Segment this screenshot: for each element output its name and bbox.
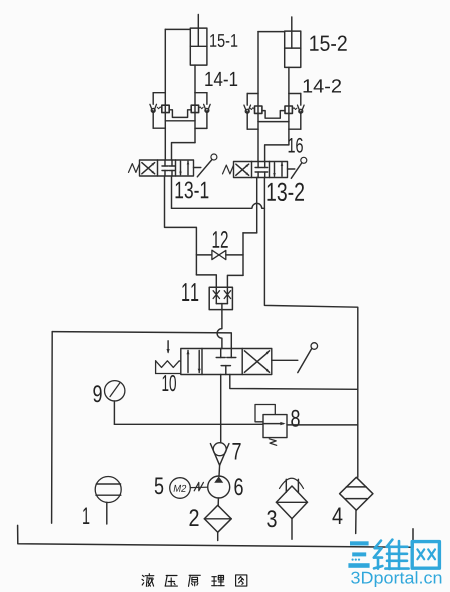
pressure gauge 9 bbox=[105, 381, 125, 401]
label 11 bbox=[182, 283, 198, 301]
wire breather stem bbox=[291, 519, 293, 540]
wire gauge line to relief valve bbox=[114, 423, 263, 425]
label 6 bbox=[234, 478, 242, 495]
wire 15-2 bottom port bbox=[288, 67, 290, 93]
check valve 7 bbox=[210, 443, 229, 466]
wire 14-2 right jog to 13-2 bbox=[265, 145, 289, 162]
wire 14-2 right check line bbox=[300, 94, 302, 106]
wire 14-1 right check bottom bbox=[206, 112, 208, 128]
label 12 bbox=[213, 231, 228, 248]
manual lever of valve 10 bbox=[272, 359, 298, 361]
oil tank bbox=[18, 525, 413, 547]
wire 14-1 right top branch bbox=[195, 92, 207, 94]
directional valve 13-2 bbox=[223, 157, 307, 178]
wire right branch vertical bbox=[242, 233, 244, 276]
wire right branch to 13-2 port1 bbox=[243, 232, 257, 234]
wire 15-1 bottom port bbox=[194, 65, 196, 93]
wire relief valve outlet bbox=[287, 424, 358, 426]
watermark character 维 bbox=[374, 540, 409, 569]
label 15-1 bbox=[210, 34, 237, 47]
wire 14-2 right main line bbox=[288, 94, 290, 145]
wire gauge stem bbox=[113, 401, 115, 424]
wire 14-1 pilot cross upper bbox=[169, 110, 191, 118]
shutoff valve 12 bowtie bbox=[212, 250, 219, 259]
wire 15-2 rod-side port bbox=[258, 31, 285, 33]
label 5 bbox=[155, 477, 164, 494]
title 原 bbox=[189, 575, 201, 586]
label 1 bbox=[83, 507, 89, 524]
check valve 14-1 right bbox=[204, 104, 211, 112]
wire 13-1 port2 down to tank line bbox=[171, 176, 173, 208]
wire 13-2 port1 down bbox=[256, 178, 258, 233]
spring of 13-2 bbox=[223, 165, 234, 174]
wire T port to return bbox=[230, 375, 358, 390]
wire 14-1 left check line bbox=[152, 93, 154, 105]
watermark 3Dportal.cn bbox=[351, 571, 441, 587]
wire 15-1 rod-side port bbox=[165, 28, 190, 30]
label 2 bbox=[189, 509, 198, 526]
throttle box 14-1 left bbox=[162, 105, 169, 112]
hydraulic pump 6 bbox=[208, 476, 230, 498]
return filter 4 bbox=[340, 477, 373, 510]
valve mark left bbox=[213, 291, 219, 299]
title 压 bbox=[165, 576, 177, 587]
label 14-2 bbox=[304, 79, 341, 92]
pilot check valve assembly 14-1 bbox=[150, 93, 210, 129]
manual lever of 13-1 bbox=[194, 167, 201, 169]
label 3 bbox=[267, 510, 276, 527]
wire 13-1 port1 down bbox=[165, 176, 197, 275]
fluid level gauge 1 bbox=[95, 477, 121, 503]
wire 15-1 left main line bbox=[164, 29, 166, 160]
check valve 14-2 left bbox=[244, 105, 251, 113]
wire filter 2 tail bbox=[217, 532, 219, 540]
title 液 bbox=[142, 574, 154, 587]
pilot check valve assembly 14-2 bbox=[244, 94, 304, 130]
wire pressure line P bbox=[220, 375, 222, 443]
watermark character 三 bbox=[348, 541, 369, 568]
label 14-1 bbox=[205, 72, 237, 86]
wire filter 4 tail bbox=[355, 510, 357, 533]
wire level gauge stem bbox=[106, 502, 108, 524]
manual lever of 13-2 bbox=[288, 168, 295, 170]
check valve 14-1 left bbox=[150, 104, 157, 112]
relief valve 8 bbox=[255, 405, 287, 446]
valve mark right bbox=[224, 291, 230, 299]
wire right branch down to shuttle valve bbox=[227, 275, 243, 287]
wire shuttle output with hop bbox=[217, 310, 222, 349]
spring of valve 10 bbox=[155, 361, 157, 374]
cylinder 15-1 bbox=[190, 15, 207, 66]
wire 14-1 left top branch bbox=[153, 92, 165, 94]
wire 14-2 pilot cross lower bbox=[258, 121, 289, 123]
wire 14-1 right main line bbox=[194, 93, 196, 143]
wire 14-2 right check bottom bbox=[300, 113, 302, 129]
wire 15-2 left main line bbox=[257, 32, 259, 162]
wire shutoff valve right branch bbox=[226, 254, 243, 256]
shuttle valve block 11 bbox=[209, 287, 232, 309]
label 13-2 bbox=[267, 183, 304, 201]
title 理 bbox=[212, 576, 224, 586]
label 10 bbox=[163, 375, 176, 391]
wire 14-1 right check line bbox=[206, 93, 208, 105]
label 16 bbox=[289, 138, 303, 153]
suction filter 2 bbox=[204, 505, 231, 532]
wire 14-1 right jog to 13-1 bbox=[172, 143, 196, 160]
wire 14-2 left check bottom bbox=[246, 113, 248, 129]
wire left branch down to shuttle valve bbox=[196, 275, 216, 287]
spring of relief valve 8 bbox=[269, 439, 276, 446]
wire 14-1 left check bottom bbox=[152, 112, 154, 128]
label 7 bbox=[232, 443, 240, 460]
title 图 bbox=[236, 575, 247, 586]
label 8 bbox=[291, 410, 299, 427]
spring of 13-1 bbox=[129, 164, 140, 173]
directional valve 13-1 bbox=[129, 154, 217, 177]
directional valve 10 bbox=[156, 341, 318, 375]
wire 13-2 port2 long return line bbox=[264, 178, 357, 478]
throttle box 14-2 left bbox=[255, 106, 262, 113]
label 4 bbox=[332, 507, 342, 524]
label 13-1 bbox=[176, 181, 209, 198]
wire 14-2 left check line bbox=[246, 94, 248, 106]
wire long line to valve 10 port B bbox=[52, 332, 231, 349]
wire 14-1 pilot cross lower bbox=[165, 120, 195, 122]
throttle box 14-2 right bbox=[285, 106, 292, 113]
electric motor 5 bbox=[170, 478, 191, 499]
wire 14-2 pilot cross upper bbox=[262, 111, 285, 119]
label 9 bbox=[93, 385, 101, 402]
shaft coupling bbox=[190, 482, 207, 490]
label 15-2 bbox=[310, 35, 347, 51]
control arrow of valve 10 bbox=[167, 341, 169, 352]
wire left boundary pipe into tank bbox=[51, 332, 54, 524]
wire pump inlet bbox=[217, 498, 219, 505]
air breather filter 3 bbox=[276, 478, 307, 518]
wire tank line 13-1 to 13-2 with hop bbox=[172, 203, 265, 208]
throttle box 14-1 right bbox=[191, 105, 198, 112]
cylinder 15-2 bbox=[285, 17, 301, 67]
wire check valve to pump bbox=[218, 465, 221, 476]
watermark character 网 bbox=[412, 542, 439, 569]
wire shutoff valve left branch bbox=[196, 254, 212, 256]
wire 14-2 left top branch bbox=[247, 93, 258, 95]
check valve 14-2 right bbox=[298, 105, 305, 113]
wire 14-2 right top branch bbox=[289, 93, 301, 95]
